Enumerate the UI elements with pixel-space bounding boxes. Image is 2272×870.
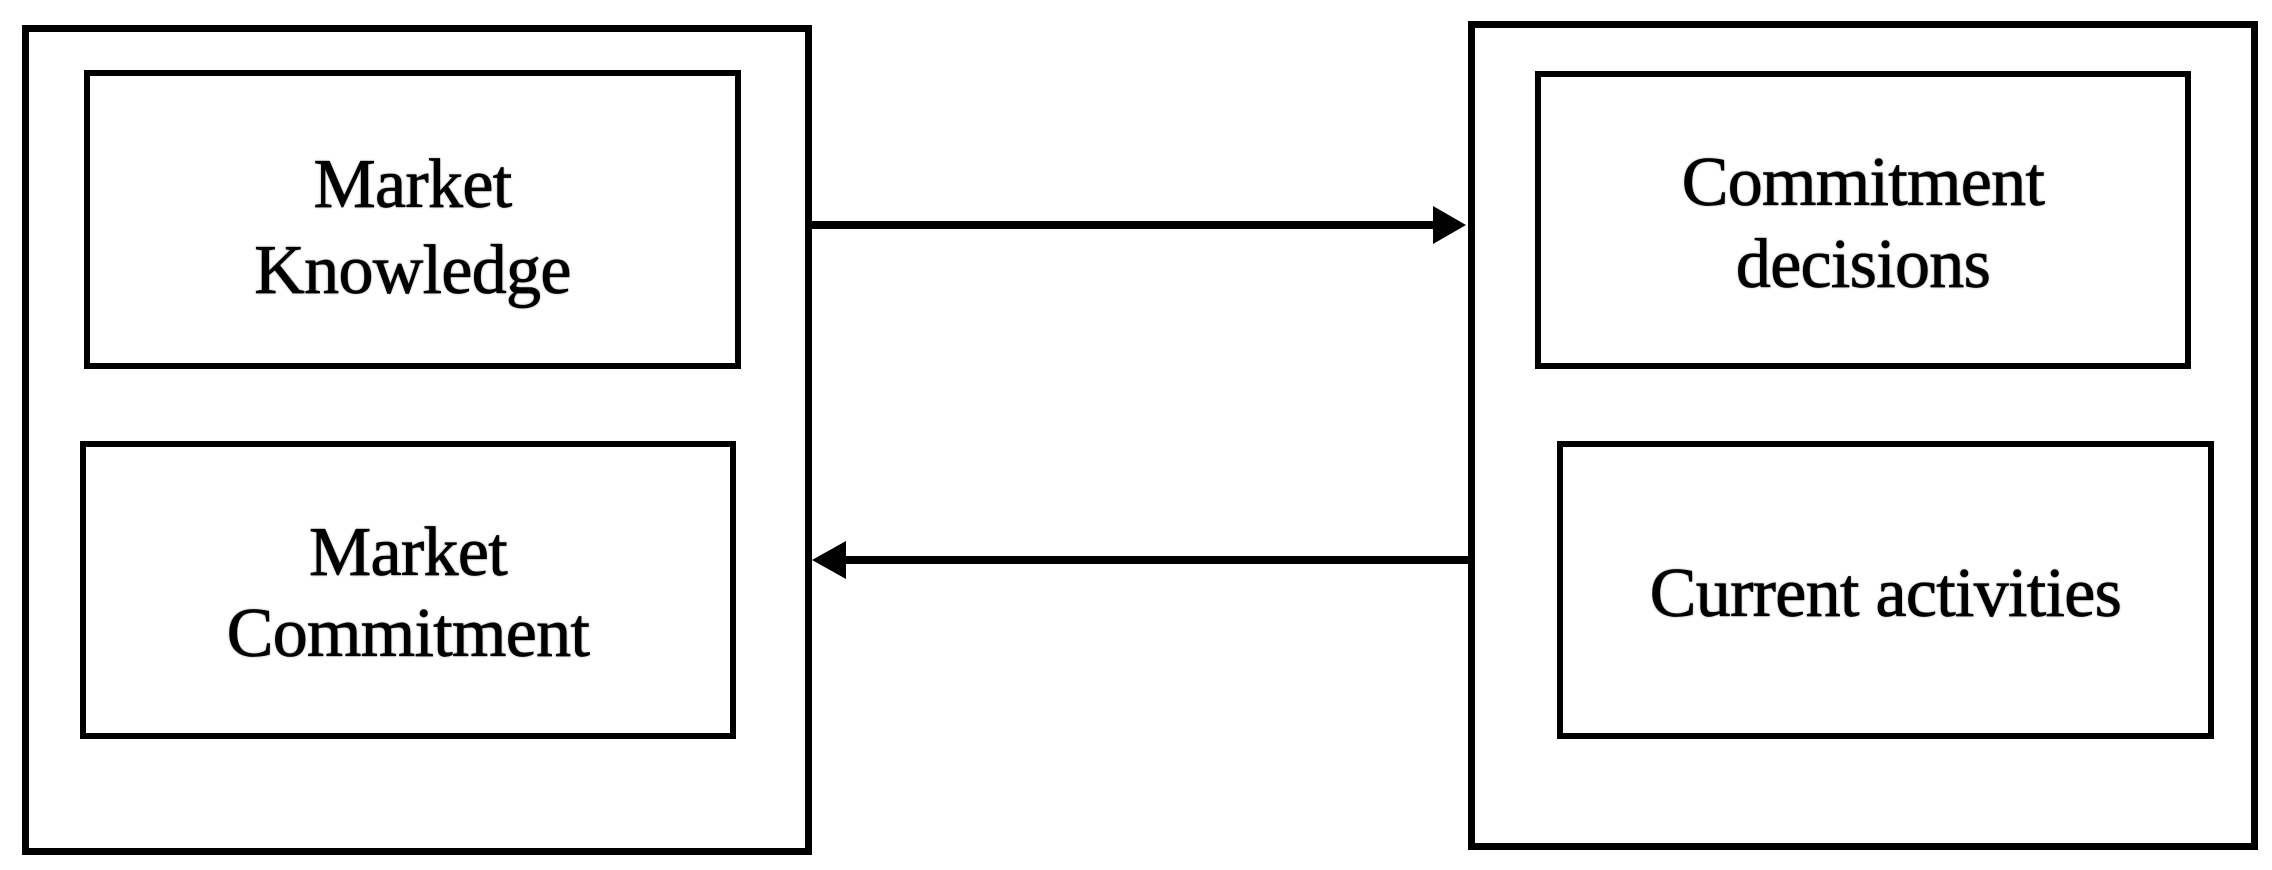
label: Commitment decisions <box>1541 148 2185 218</box>
outer box: state aspects (left) <box>22 25 812 855</box>
arrow: left box to right box (top) <box>812 221 1436 229</box>
box: Current activities <box>1557 441 2214 739</box>
arrowhead (right-pointing) <box>1433 206 1466 244</box>
box: Commitment decisions <box>1535 71 2191 369</box>
label: Market Commitment <box>86 518 730 588</box>
outer box: change aspects (right) <box>1468 21 2258 850</box>
arrow: right box to left box (bottom) <box>844 556 1468 564</box>
box: Market Commitment <box>80 441 736 739</box>
label: Current activities <box>1563 559 2208 629</box>
label: Market Knowledge <box>90 150 735 220</box>
arrowhead (left-pointing) <box>812 541 846 579</box>
box: Market Knowledge <box>84 70 741 369</box>
